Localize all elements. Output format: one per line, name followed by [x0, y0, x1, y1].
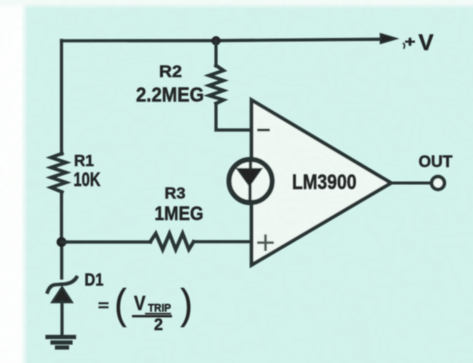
label +V — [405, 30, 434, 55]
wire plus input rail — [62, 240, 151, 243]
zener diode D1 — [48, 278, 77, 303]
op-amp minus input sign — [259, 129, 269, 132]
wire R2 branch upper — [214, 41, 217, 66]
wire R2 to minus input — [216, 104, 251, 131]
node junction dot top — [211, 36, 220, 45]
op-amp plus input sign — [259, 236, 273, 250]
resistor R2 — [209, 66, 224, 104]
op-amp U1 triangle — [252, 100, 392, 265]
wire output — [391, 182, 431, 185]
wire R3 to plus input — [194, 240, 251, 243]
wire to ground — [60, 302, 63, 334]
speckle mark before +V — [404, 44, 405, 49]
wire left rail lower — [60, 242, 63, 278]
ground — [48, 337, 75, 348]
wire left rail mid — [60, 192, 63, 242]
resistor R3 — [150, 234, 193, 250]
node junction dot left — [57, 237, 67, 247]
resistor R1 — [51, 154, 66, 193]
formula Vtrip over 2 — [98, 281, 193, 335]
output terminal — [432, 177, 445, 190]
arrow +V supply — [381, 34, 397, 44]
wire left rail upper — [60, 41, 63, 155]
current source symbol — [229, 159, 272, 202]
wire top rail — [62, 39, 380, 41]
